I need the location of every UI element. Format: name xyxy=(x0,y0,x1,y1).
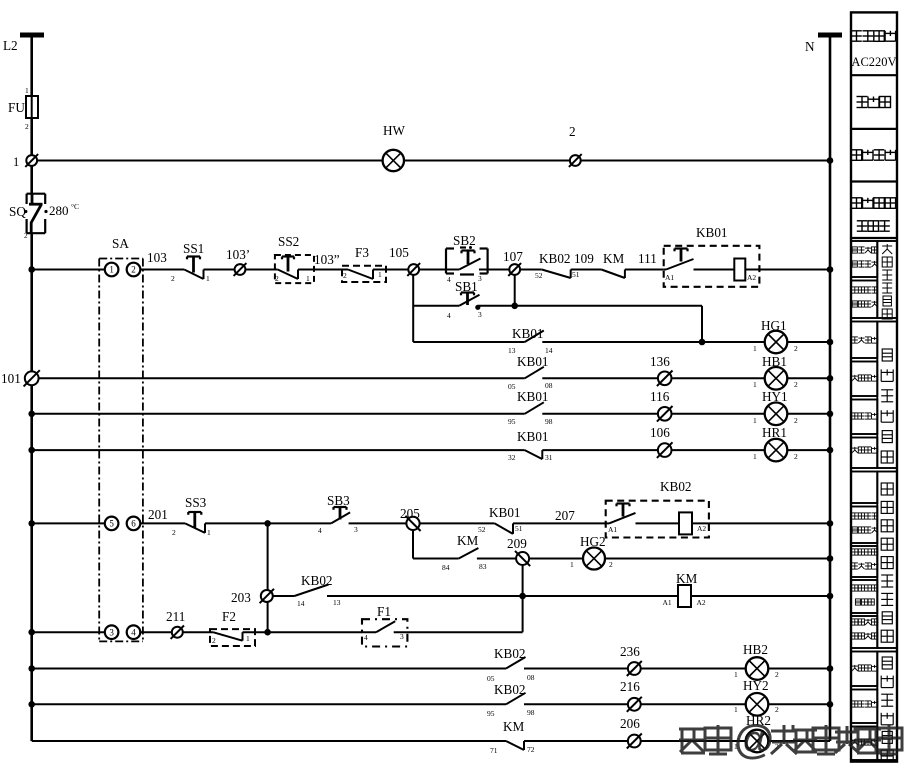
svg-text:1: 1 xyxy=(207,528,211,537)
wire 206 to HR2 xyxy=(641,740,746,742)
svg-text:4: 4 xyxy=(364,633,368,642)
pin 84 xyxy=(442,563,450,572)
svg-text:72: 72 xyxy=(527,745,535,754)
svg-text:95: 95 xyxy=(487,709,495,718)
svg-text:209: 209 xyxy=(507,536,527,551)
terminal 116 xyxy=(657,406,673,422)
svg-text:SS2: SS2 xyxy=(278,234,299,249)
node L2 bus terminal bar xyxy=(20,33,44,38)
svg-text:1: 1 xyxy=(246,634,250,643)
label 201 xyxy=(148,507,168,522)
svg-text:KB02: KB02 xyxy=(660,479,692,494)
wire F2 to F1 xyxy=(243,631,377,633)
svg-text:SB3: SB3 xyxy=(327,493,350,508)
pin 14 km xyxy=(297,599,305,608)
svg-text:05: 05 xyxy=(508,382,516,391)
node N bus terminal bar xyxy=(818,33,842,38)
wire vertical 522 down xyxy=(522,565,524,632)
svg-text:13: 13 xyxy=(508,346,516,355)
pin 1 of F3 xyxy=(378,270,382,279)
svg-text:FU: FU xyxy=(8,100,25,115)
pin 2 of HG1 xyxy=(794,344,798,353)
svg-text:A1: A1 xyxy=(665,273,674,282)
svg-text:1: 1 xyxy=(734,670,738,679)
pin 1 of HB1 xyxy=(753,380,757,389)
svg-text:°C: °C xyxy=(71,202,79,211)
junction HY2-N xyxy=(827,701,834,708)
SA contact 5 xyxy=(105,517,119,531)
pin 2 of HR2 xyxy=(775,742,779,751)
svg-text:101: 101 xyxy=(1,371,21,386)
label 209 xyxy=(507,536,527,551)
wire KB02 to N xyxy=(692,522,830,524)
pin 51 xyxy=(572,270,580,279)
wire 216 to HY2 xyxy=(641,703,746,705)
svg-text:71: 71 xyxy=(490,746,498,755)
label N xyxy=(805,39,815,54)
coil KB02 xyxy=(679,512,692,534)
wire KB01 internal xyxy=(694,269,735,271)
svg-text:2: 2 xyxy=(569,124,576,139)
svg-text:1: 1 xyxy=(734,705,738,714)
svg-text:1: 1 xyxy=(206,274,210,283)
pin 2 of SQ xyxy=(24,232,28,240)
label SS1 xyxy=(183,241,204,256)
svg-text:HY2: HY2 xyxy=(743,678,769,693)
junction L2-Frow xyxy=(28,629,35,636)
svg-text:106: 106 xyxy=(650,425,670,440)
svg-text:F3: F3 xyxy=(355,245,369,260)
svg-text:HG1: HG1 xyxy=(761,318,787,333)
pin 3 of SB3 xyxy=(354,525,358,534)
label 105 xyxy=(389,245,409,260)
svg-text:1: 1 xyxy=(753,416,757,425)
junction L2-HY2row xyxy=(28,701,35,708)
fuse FU xyxy=(26,96,38,118)
label 107 xyxy=(503,249,523,264)
contact KB01 13-14 xyxy=(413,331,701,343)
legend vertical labels xyxy=(881,244,893,762)
terminal 107 xyxy=(508,263,521,276)
pin 95 b xyxy=(487,709,495,718)
wire KB01 to N xyxy=(745,269,830,271)
junction 702-HG1row xyxy=(699,339,706,346)
svg-text:L2: L2 xyxy=(3,38,18,53)
lamp HR2 xyxy=(746,730,769,753)
junction SS3row-N xyxy=(827,520,834,527)
wire L2 bus vertical xyxy=(30,38,33,742)
pin 2 of HB2 xyxy=(775,670,779,679)
wire to 136 xyxy=(542,377,658,379)
svg-text:4: 4 xyxy=(131,627,136,637)
svg-text:3: 3 xyxy=(478,274,482,283)
label KB01 relay xyxy=(696,225,728,240)
label SS3 xyxy=(185,495,207,510)
svg-text:A1: A1 xyxy=(608,525,617,534)
wire SS3 to junction xyxy=(205,522,331,524)
SA contact 1 xyxy=(105,263,119,277)
wire 205 to KB01contact xyxy=(420,522,495,524)
wire SA to 211 xyxy=(140,631,172,633)
svg-text:SA: SA xyxy=(112,236,129,251)
svg-text:6: 6 xyxy=(131,519,136,529)
contact KB01 32-31 xyxy=(525,450,543,459)
svg-text:KB01: KB01 xyxy=(517,389,549,404)
wire 211 to F2 xyxy=(183,631,213,633)
svg-text:105: 105 xyxy=(389,245,409,260)
junction 107-SB1 xyxy=(511,303,518,310)
pin 05 b xyxy=(487,674,495,683)
pin 1 of HY1 xyxy=(753,416,757,425)
svg-text:3: 3 xyxy=(478,310,482,319)
pin 4 of F1 xyxy=(364,633,368,642)
wire 107 to KB02contact xyxy=(520,269,542,271)
wire 111 xyxy=(625,269,664,271)
pin 51 mid xyxy=(515,524,523,533)
wire vertical 105 down xyxy=(412,275,414,342)
svg-text:1: 1 xyxy=(109,265,114,275)
pushbutton SB1 xyxy=(413,293,479,306)
label HB2 xyxy=(743,642,768,657)
label 211 xyxy=(166,609,185,624)
svg-text:3: 3 xyxy=(354,525,358,534)
wire to 116 xyxy=(542,413,658,415)
legend sub column labels xyxy=(852,247,878,745)
label KB01 32-31 xyxy=(517,429,549,444)
label HB1 xyxy=(762,354,787,369)
label SS2 xyxy=(278,234,299,249)
label KM row main xyxy=(603,251,625,266)
svg-text:52: 52 xyxy=(535,271,543,280)
svg-text:2: 2 xyxy=(24,232,28,240)
pin A2 of KB01 xyxy=(747,273,756,282)
svg-text:@: @ xyxy=(734,716,774,762)
svg-text:2: 2 xyxy=(172,528,176,537)
wire SB3 to 205 xyxy=(349,522,408,524)
pin 13 km xyxy=(333,598,341,607)
label KM coil xyxy=(676,571,698,586)
label KM 71-72 xyxy=(503,719,525,734)
svg-text:1: 1 xyxy=(13,155,19,169)
svg-text:SQ: SQ xyxy=(9,204,26,219)
pin 95 xyxy=(508,417,516,426)
label 205 xyxy=(400,506,420,521)
wire HY1 to N xyxy=(787,413,830,415)
pin 3 of F1 xyxy=(400,632,404,641)
pushbutton SB2 xyxy=(446,251,481,270)
svg-text:08: 08 xyxy=(527,673,535,682)
label 109 xyxy=(574,251,594,266)
wire 209 to HG2 xyxy=(529,558,583,560)
wire SA to SS1 xyxy=(140,269,184,271)
contact KM 71-72 xyxy=(506,741,524,750)
wire main to SA xyxy=(32,269,105,271)
contact F1 xyxy=(376,621,395,632)
wire to KM coil xyxy=(523,595,678,597)
svg-text:4: 4 xyxy=(447,275,451,284)
junction L2-HB2row xyxy=(28,665,35,672)
wire F3 to 105 xyxy=(373,269,408,271)
switch SS1 xyxy=(184,257,203,280)
contact F2 box xyxy=(210,629,255,646)
wire SS2 to F3 xyxy=(298,269,348,271)
relay KB01 box xyxy=(664,246,760,287)
pin 52 xyxy=(535,271,543,280)
terminal 211 xyxy=(171,626,184,639)
terminal 136 xyxy=(657,371,673,387)
lamp HB1 xyxy=(765,367,788,390)
label HY2 xyxy=(743,678,769,693)
label FU xyxy=(8,100,25,115)
svg-text:1: 1 xyxy=(25,86,29,95)
pin A2 of KB02 xyxy=(697,524,706,533)
pin 3 of SB2 xyxy=(478,274,482,283)
pin 14 xyxy=(545,346,553,355)
svg-text:KB02: KB02 xyxy=(494,646,526,661)
wire KB02 internal xyxy=(636,522,680,524)
wire SB1 to bend xyxy=(478,305,702,307)
lamp HY1 xyxy=(765,403,788,426)
pin 98 xyxy=(545,417,553,426)
terminal 103' xyxy=(234,263,247,276)
junction HB2-N xyxy=(827,665,834,672)
terminal 101 xyxy=(24,370,40,386)
svg-text:KB02: KB02 xyxy=(494,682,526,697)
junction L2-main row xyxy=(28,266,35,273)
svg-text:2: 2 xyxy=(343,271,347,280)
wire SA to SS3 xyxy=(140,522,185,524)
svg-text:HG2: HG2 xyxy=(580,534,606,549)
svg-text:1: 1 xyxy=(378,270,382,279)
svg-text:KB02: KB02 xyxy=(301,573,333,588)
wire HG1 to N xyxy=(787,341,830,343)
pin 72 xyxy=(527,745,535,754)
wire vertical 107 down xyxy=(514,275,516,306)
contact KB01 95-98 xyxy=(525,402,544,414)
svg-text:109: 109 xyxy=(574,251,594,266)
svg-text:KM: KM xyxy=(603,251,625,266)
label KB02 relay xyxy=(660,479,692,494)
svg-text:4: 4 xyxy=(447,311,451,320)
label KB01 95-98 xyxy=(517,389,549,404)
wire HR1 to N xyxy=(787,449,830,451)
svg-text:KB02: KB02 xyxy=(539,251,571,266)
label SQ xyxy=(9,204,26,219)
wire Frow left xyxy=(32,631,105,633)
wire SB2 to 107 xyxy=(479,269,509,271)
svg-text:211: 211 xyxy=(166,609,185,624)
watermark text xyxy=(679,716,902,762)
label 216 xyxy=(620,679,640,694)
pin 1 of HG2 xyxy=(570,560,574,569)
junction L2-32row xyxy=(28,447,35,454)
svg-text:103: 103 xyxy=(147,250,167,265)
pin 1 of HY2 xyxy=(734,705,738,714)
svg-text:2: 2 xyxy=(775,705,779,714)
SA contact 6 xyxy=(127,517,141,531)
wire vertical 267 down xyxy=(267,523,269,632)
pin 05 xyxy=(508,382,516,391)
pin 4 of SB1 xyxy=(447,311,451,320)
pin 52 mid xyxy=(478,525,486,534)
pin 1 of HB2 xyxy=(734,670,738,679)
pin 2 of HG2 xyxy=(609,560,613,569)
svg-text:KM: KM xyxy=(503,719,525,734)
svg-text:52: 52 xyxy=(478,525,486,534)
svg-text:111: 111 xyxy=(638,251,657,266)
pin 2 of HB1 xyxy=(794,380,798,389)
pin 1 of SS1 xyxy=(206,274,210,283)
pin 1 of HR1 xyxy=(753,452,757,461)
svg-text:AC220V: AC220V xyxy=(851,55,896,69)
wire HB1 to N xyxy=(787,377,830,379)
wire HG2 to N xyxy=(605,558,830,560)
wire row1 right xyxy=(581,160,830,162)
svg-text:95: 95 xyxy=(508,417,516,426)
label KB02 14-13 xyxy=(301,573,333,588)
pin 31 xyxy=(545,453,553,462)
pin 2 of F2 xyxy=(212,636,216,645)
wire 136 to HB1 xyxy=(671,377,765,379)
label SB1 xyxy=(455,279,478,294)
wire KM83 to 209 xyxy=(477,558,516,560)
svg-text:31: 31 xyxy=(545,453,553,462)
svg-text:3: 3 xyxy=(400,632,404,641)
svg-text:2: 2 xyxy=(794,380,798,389)
svg-text:HB1: HB1 xyxy=(762,354,787,369)
wire row1 mid xyxy=(404,160,569,162)
lamp HR1 xyxy=(765,439,788,462)
terminal 205 xyxy=(405,516,420,531)
terminal 216 xyxy=(627,697,642,712)
wire 116 to HY1 xyxy=(671,413,765,415)
label 280C xyxy=(49,202,79,218)
svg-text:HW: HW xyxy=(383,123,406,138)
svg-text:KB01: KB01 xyxy=(512,326,544,341)
junction HG2-N xyxy=(827,555,834,562)
svg-text:2: 2 xyxy=(212,636,216,645)
terminal 2 xyxy=(569,154,582,167)
label KB01 52-51 xyxy=(489,505,521,520)
pin 98 b xyxy=(527,708,535,717)
wire to 216 xyxy=(524,703,628,705)
svg-text:32: 32 xyxy=(508,453,516,462)
junction main-N xyxy=(827,266,834,273)
wire KM coil to N xyxy=(691,595,830,597)
switch SS2 box xyxy=(275,255,314,283)
pin 08 b xyxy=(527,673,535,682)
pin 2 of SS3 xyxy=(172,528,176,537)
junction HR1-N xyxy=(827,447,834,454)
terminal 203 xyxy=(260,589,274,603)
label KM 84-83 xyxy=(457,533,479,548)
wire to 236 xyxy=(524,668,628,670)
svg-text:1: 1 xyxy=(306,274,310,283)
label 236 xyxy=(620,644,640,659)
junction HY1-N xyxy=(827,411,834,418)
wire 95 row xyxy=(32,413,525,415)
wire 103p to SS2 xyxy=(245,269,277,271)
svg-text:107: 107 xyxy=(503,249,523,264)
junction HB1-N xyxy=(827,375,834,382)
svg-text:2: 2 xyxy=(25,122,29,131)
svg-text:KB01: KB01 xyxy=(489,505,521,520)
label SB3 xyxy=(327,493,350,508)
label KB02 95-98 xyxy=(494,682,526,697)
contact KB01 52-51 xyxy=(495,523,513,534)
contact KM 84-83 xyxy=(459,548,479,559)
svg-text:205: 205 xyxy=(400,506,420,521)
svg-text:201: 201 xyxy=(148,507,168,522)
label 101 xyxy=(1,371,21,386)
svg-text:A2: A2 xyxy=(697,598,706,607)
contact KM 52 row xyxy=(601,270,625,279)
svg-text:SS3: SS3 xyxy=(185,495,207,510)
pin 4 of SB2 xyxy=(447,275,451,284)
svg-text:103’: 103’ xyxy=(226,247,250,262)
pin 1 of SS2 xyxy=(306,274,310,283)
label 103'' xyxy=(314,252,340,267)
lamp HW xyxy=(383,150,404,171)
junction 267-Frow xyxy=(264,629,271,636)
pin 83 xyxy=(479,562,487,571)
pin 08 xyxy=(545,381,553,390)
switch SS3 xyxy=(185,512,205,533)
contact F2 xyxy=(213,632,243,641)
terminal 236 xyxy=(627,661,642,676)
svg-text:84: 84 xyxy=(442,563,450,572)
svg-text:14: 14 xyxy=(297,599,305,608)
wire vertical 702 down xyxy=(701,306,703,342)
relay KB02 contact xyxy=(606,504,636,524)
svg-text:3: 3 xyxy=(109,627,114,637)
pin 32 xyxy=(508,453,516,462)
svg-text:4: 4 xyxy=(318,526,322,535)
svg-text:207: 207 xyxy=(555,508,575,523)
coil KB01 xyxy=(734,259,745,281)
pin 2 of FU xyxy=(25,122,29,131)
label HR2 xyxy=(746,713,771,728)
svg-text:KB01: KB01 xyxy=(517,354,549,369)
svg-text:HY1: HY1 xyxy=(762,389,788,404)
label HG1 xyxy=(761,318,787,333)
svg-text:HB2: HB2 xyxy=(743,642,768,657)
wire to HG1 xyxy=(702,341,765,343)
pin 1 of FU xyxy=(25,86,29,95)
junction HG1-N xyxy=(827,339,834,346)
pin 4 of SB3 xyxy=(318,526,322,535)
svg-text:2: 2 xyxy=(171,274,175,283)
svg-text:1: 1 xyxy=(753,380,757,389)
contact KB01 05-08 xyxy=(525,367,544,379)
svg-text:F1: F1 xyxy=(377,604,391,619)
terminal 106 xyxy=(657,442,673,458)
label KB01 05-08 xyxy=(517,354,549,369)
relay KB02 box xyxy=(606,501,709,538)
pin A1 of KB01 xyxy=(665,273,674,282)
svg-text:A2: A2 xyxy=(747,273,756,282)
svg-text:103”: 103” xyxy=(314,252,340,267)
svg-text:98: 98 xyxy=(527,708,535,717)
svg-text:2: 2 xyxy=(794,416,798,425)
svg-text:216: 216 xyxy=(620,679,640,694)
svg-text:SB2: SB2 xyxy=(453,233,476,248)
SA contact 2 xyxy=(127,263,141,277)
svg-text:A2: A2 xyxy=(697,524,706,533)
label HW xyxy=(383,123,406,138)
pin A2 of KM xyxy=(697,598,706,607)
terminal 105 xyxy=(407,263,420,276)
